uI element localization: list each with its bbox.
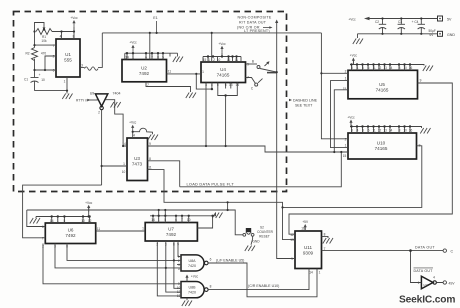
svg-text:U2: U2 [141,66,147,71]
svg-text:+Vcc: +Vcc [347,116,355,120]
svg-text:+ C4: + C4 [412,20,419,24]
wire U9 output to U3 pin1 and down to reset line [23,110,127,238]
IC U1 555 timer [53,35,84,84]
node E1 (clock test point) [153,16,157,33]
power rail +Vcc top right [348,17,437,38]
svg-text:6: 6 [42,225,44,229]
IC U4 74165 shift register [201,58,249,87]
svg-text:+Vcc: +Vcc [129,41,137,45]
svg-text:8: 8 [149,157,151,161]
svg-text:74165: 74165 [375,146,388,151]
svg-text:10: 10 [403,129,407,133]
wire U11 ground stub [322,236,329,238]
IC U10 74165 shift register [343,129,421,159]
svg-text:C1: C1 [24,78,28,82]
svg-text:3: 3 [81,64,83,68]
wire U1 pin3 clock output up to clock line [80,33,102,68]
svg-text:7420: 7420 [188,264,196,268]
svg-text:E1: E1 [153,16,157,20]
wire main clock line [102,32,321,34]
ground right of U11 [323,238,333,244]
svg-text:DASHED LINE: DASHED LINE [293,99,318,103]
wire U11 vcc stub [304,227,306,231]
svg-text:2: 2 [345,69,347,73]
ground below S2 [245,246,255,252]
svg-text:+Vcc: +Vcc [350,54,358,58]
wire load branch up to U5 pin1 [331,81,349,148]
capacitor C1 [24,70,45,91]
wire clock drop to U4 pin2 [211,33,213,62]
wire U8B output to U11 [208,269,309,290]
wire U5 vcc bus [350,61,424,71]
svg-text:U4: U4 [220,67,226,72]
wire U4 bottom pin bus [206,83,237,96]
IC U3 7473 flip-flop [122,134,152,181]
svg-text:1: 1 [319,271,321,275]
svg-text:13: 13 [290,238,294,242]
svg-text:5V: 5V [447,17,452,21]
svg-text:GND: GND [252,240,260,244]
svg-text:8: 8 [324,233,326,237]
svg-text:1: 1 [418,281,420,285]
wire U7 top bus [150,213,216,223]
wire U10 pin9 output to U11 and DATA OUT [283,146,422,240]
svg-text:14: 14 [389,129,393,133]
svg-text:+Vcc: +Vcc [348,17,356,21]
wire switch S2 to ground [251,236,253,245]
wire U11 output DATA OUT [322,250,444,252]
svg-text:15: 15 [343,154,347,158]
terminal GND [438,31,456,37]
label DASHED LINE SEE TEXT [289,99,318,108]
dashed box outline [14,12,287,192]
terminal D (inverted DATA OUT) [443,281,455,286]
svg-text:4: 4 [133,134,135,138]
svg-text:470: 470 [41,52,47,56]
svg-text:SEE TEXT: SEE TEXT [295,104,313,108]
+Vcc above U5 [350,54,358,65]
svg-text:9: 9 [247,63,249,67]
svg-text:2: 2 [98,111,100,115]
terminal C (DATA OUT) [443,249,453,254]
+Vcc at U8 pin14 [185,275,198,282]
svg-text:C3: C3 [398,20,402,24]
svg-text:U1: U1 [65,52,71,57]
svg-text:7473: 7473 [132,162,143,167]
+Vcc above U6 [85,201,93,212]
svg-text:11: 11 [372,66,376,70]
svg-text:U9: U9 [90,92,95,96]
svg-text:(L/F ENABLE U5): (L/F ENABLE U5) [216,259,244,263]
wire load data pulse to dashed exit [180,152,342,187]
wire U3 vcc pin4 [132,132,134,138]
label DATA OUT [415,246,435,250]
+Vcc above U2 [129,41,137,52]
svg-text:16: 16 [409,66,413,70]
svg-text:7420: 7420 [188,290,196,294]
ground right of U10 top [420,128,430,134]
svg-text:LT PRESENT): LT PRESENT) [244,29,270,33]
switch S1 (data select) [246,60,277,91]
svg-text:R2: R2 [25,52,29,56]
IC U7 7492 counter [142,218,197,247]
wire U8 vcc stub [186,278,188,282]
label LOAD DATA PULSE FLT [187,182,235,187]
svg-text:12: 12 [378,66,382,70]
svg-text:6: 6 [210,258,212,262]
wire reset taps to U7 [159,210,166,216]
svg-text:+Vcc: +Vcc [129,121,137,125]
NAND gate U8B 7420 [177,282,212,299]
wire U8A output to U11 [208,263,317,297]
svg-text:1: 1 [202,70,204,74]
svg-text:14: 14 [309,271,313,275]
wire DATA OUT branch to inverter U12 [411,251,444,283]
svg-text:1: 1 [142,227,144,231]
wire clock drop to U2 pin14 [149,33,151,60]
svg-text:DATA OUT: DATA OUT [414,269,434,273]
ground right of U5 top [423,66,433,72]
wire U7 bottom pins to gates [157,241,181,296]
NAND gate U8A 7420 [178,255,212,271]
label C/R ENABLE [248,284,279,288]
ground right of U3 arc [148,135,158,141]
wire reset bus to switch [228,210,243,235]
wire R1 left node down through R2 to C1 [34,32,36,71]
svg-text:+Vcc: +Vcc [218,42,226,46]
inverter U9 7404 [90,92,121,115]
svg-text:9309: 9309 [303,251,314,256]
svg-text:7404: 7404 [113,92,121,96]
svg-text:10: 10 [403,66,407,70]
svg-text:9: 9 [291,257,293,261]
capacitor C4 [412,19,436,37]
svg-text:U5: U5 [379,82,385,87]
ground right of U2 top [173,57,183,63]
svg-text:11: 11 [148,166,152,170]
watermark SeekIC.com [399,295,455,306]
svg-text:11: 11 [168,70,172,74]
svg-text:16: 16 [409,129,413,133]
IC U11 9309 multiplexer [290,227,325,275]
svg-text:7492: 7492 [65,233,76,238]
wire U5 pin15 vertical [334,90,348,152]
+Vcc above U10 [347,116,355,127]
IC U6 7492 counter [42,219,100,249]
svg-text:7: 7 [53,44,55,48]
svg-text:U8B: U8B [189,286,197,290]
svg-text:SeekIC.com: SeekIC.com [399,295,455,306]
ground left of U6 top [30,218,40,224]
svg-text:11: 11 [372,129,376,133]
svg-text:74165: 74165 [376,88,389,93]
svg-text:U3: U3 [134,156,140,161]
wire U2 vcc bus [125,52,178,60]
wire pin7 [35,44,57,46]
svg-text:7: 7 [42,237,44,241]
label inverted DATA OUT [414,268,434,273]
ground U1 pin1 [62,94,72,100]
+Vcc above U1 [70,16,78,27]
IC U2 7492 counter [122,55,171,87]
+Vcc above U11 [302,220,309,231]
svg-text:4SV: 4SV [449,282,456,286]
switch S2 counter reset pushbutton [243,226,274,244]
svg-text:7492: 7492 [139,71,150,76]
wire counter reset bus lower [27,202,228,226]
svg-text:10: 10 [122,170,126,174]
wire branch from U2-U4 link down [196,74,212,89]
capacitor C3 [398,19,405,34]
wire U4 bottom verticals [206,89,226,146]
wire U2 pin7 to ground [146,82,191,92]
svg-text:1: 1 [345,144,347,148]
ground right of U9 [111,102,121,108]
svg-text:2: 2 [345,137,347,141]
wire U4 vcc bus [203,53,241,62]
terminal 5V [438,16,452,21]
ground for power rail [353,39,363,45]
wire U3 load pulse output to shift registers [148,146,349,152]
svg-text:LOAD DATA PULSE FLT: LOAD DATA PULSE FLT [187,182,235,187]
+Vcc above U4 [218,42,226,53]
svg-text:11: 11 [97,227,101,231]
svg-text:13: 13 [383,66,387,70]
svg-text:2: 2 [213,58,215,62]
svg-text:COUNTER: COUNTER [257,230,273,234]
wire C1 bottom to pin1 ground [35,77,68,94]
svg-text:+: + [39,73,41,77]
svg-text:U11: U11 [304,245,313,250]
svg-text:U12: U12 [423,283,429,287]
svg-text:GND: GND [447,33,455,37]
svg-text:12: 12 [290,233,294,237]
svg-text:RESET: RESET [259,235,270,239]
svg-text:+Vcc: +Vcc [70,16,78,20]
wire U2 pin11 to U4 pin1 [167,73,202,75]
svg-text:DATA OUT: DATA OUT [415,246,435,250]
ground right of U7 top [212,213,222,219]
svg-text:4: 4 [433,276,435,280]
svg-text:B: B [252,60,254,64]
wire switch common to vertical [277,22,295,259]
wire U3 pin8 to load data pulse line [148,161,228,203]
+Vcc above U3 [129,121,137,132]
svg-text:+5V: +5V [302,220,309,224]
svg-text:S2: S2 [260,226,264,230]
wire U6 out to U7 in [96,230,146,232]
svg-text:1: 1 [64,80,66,84]
resistor R1 10k potentiometer [35,23,53,43]
IC U5 74165 shift register [343,66,422,99]
wire U9 side stub to U3 pin14 [105,100,127,146]
svg-text:8: 8 [210,285,212,289]
svg-text:U6: U6 [68,228,74,233]
svg-text:U10: U10 [377,141,386,146]
svg-text:7492: 7492 [166,232,177,237]
arrowhead non-composite output [275,20,278,24]
svg-text:(C/R ENABLE U10): (C/R ENABLE U10) [248,284,279,288]
ground below U2 pin area [186,93,196,99]
svg-text:9: 9 [420,79,422,83]
wire U5 pin9 output to U11 [289,83,452,234]
svg-text:2: 2 [53,55,55,59]
svg-text:12: 12 [378,129,382,133]
wire +Vcc to R1/pin4/pin8 [52,27,74,39]
label L/F ENABLE [216,259,244,263]
waveform symbol at U1 pin 3 [85,67,99,70]
svg-text:+Vcc: +Vcc [85,201,93,205]
svg-text:13: 13 [383,129,387,133]
label NON-COMPOSITE RTTY DATA OUT [237,16,273,33]
svg-text:6: 6 [53,69,55,73]
wire U6 top bus [36,208,90,223]
resistor R2 470 [25,48,46,61]
wire clock down right side to U5/U10 pin2 [321,33,348,139]
svg-text:U7: U7 [168,227,174,232]
svg-text:1: 1 [345,77,347,81]
svg-text:10k: 10k [41,39,47,43]
wire pin2 jumper [45,56,56,70]
wire U3 arc to ground [133,128,153,134]
label RTTY in [76,99,98,103]
svg-text:NON-COMPOSITE: NON-COMPOSITE [238,16,272,20]
wire U6 bottom pins to gates [43,244,181,284]
svg-text:74165: 74165 [217,73,230,78]
svg-text:R/T DATA OUT: R/T DATA OUT [239,20,267,24]
svg-text:1: 1 [123,162,125,166]
wire counter reset bus upper [228,202,283,207]
wire U10 vcc bus [350,123,422,134]
wire U7 feedback to bus [197,216,212,228]
svg-text:9: 9 [149,142,151,146]
capacitor C2 [375,19,386,34]
svg-text:C: C [451,250,454,254]
svg-text:14: 14 [389,66,393,70]
svg-text:U8A: U8A [189,259,197,263]
svg-text:RTTY in: RTTY in [76,99,88,103]
svg-text:C2: C2 [375,20,379,24]
svg-text:10: 10 [41,78,45,82]
svg-text:555: 555 [64,58,72,63]
inverter U12 (DATA OUT inverter) [418,276,437,289]
svg-text:+Vcc: +Vcc [191,275,199,279]
wire U8A pin4 stub [177,264,181,266]
ground U8 pin 7 [186,298,188,300]
wire pin6 [35,69,57,71]
